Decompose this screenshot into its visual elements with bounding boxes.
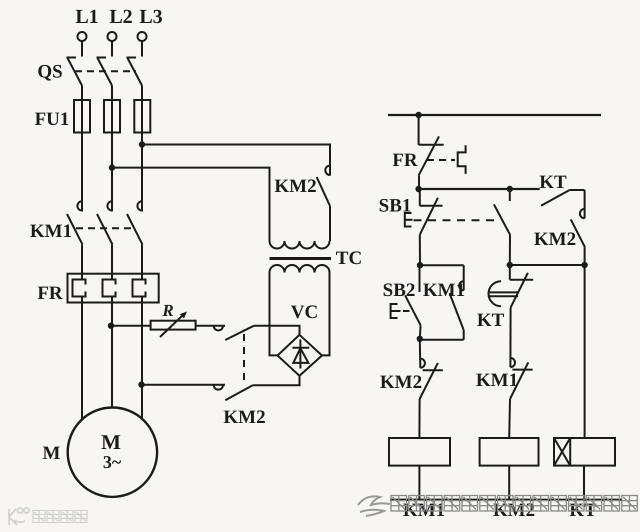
svg-text:L1: L1 (75, 6, 98, 28)
wire L1 drop to QS (81, 41, 83, 57)
svg-text:3~: 3~ (103, 452, 122, 472)
control top bus (388, 114, 601, 116)
resistor R (151, 301, 196, 337)
wire L2 drop to QS (111, 41, 113, 57)
junction dot L3 tap (139, 141, 145, 147)
pushbutton SB2 actuator (391, 304, 410, 318)
node L2 (109, 6, 132, 28)
pushbutton SB1 NC contact (379, 191, 443, 265)
junction dot lower tap (138, 381, 144, 387)
switch QS label (37, 62, 62, 83)
transformer TC secondary winding (270, 265, 330, 272)
svg-text:FR: FR (37, 283, 63, 304)
thermal relay FR label (37, 283, 63, 304)
junction dot B2 (507, 262, 513, 268)
wire L3 drop to QS (141, 41, 143, 57)
junction dot L2 tap (109, 164, 115, 170)
transformer TC label (336, 248, 362, 269)
pushbutton SB2 NO contact (383, 265, 421, 339)
wire right column to KT coil (584, 265, 586, 438)
wire to KM2 lower contact (142, 384, 226, 386)
thermal relay FR heater 2 (103, 274, 116, 303)
motor M circle (68, 408, 157, 497)
wire bus to FR contact (418, 115, 420, 145)
svg-text:KM2: KM2 (274, 176, 316, 197)
svg-text:SB2: SB2 (383, 280, 416, 301)
watermark logo right (358, 496, 390, 516)
control bottom bus (390, 499, 622, 501)
coil label KM2 (493, 500, 535, 521)
svg-text:KM1: KM1 (476, 370, 518, 391)
terminal L2 (108, 32, 117, 41)
svg-text:KT: KT (539, 172, 567, 193)
svg-text:M: M (101, 430, 121, 454)
switch QS pole 3 (127, 58, 143, 101)
wire tap L2 to TC primary (112, 168, 270, 241)
junction dot SB2 bottom (417, 336, 423, 342)
pushbutton SB1 actuator (405, 213, 413, 227)
wire resistor to KM2 upper contact (196, 325, 225, 327)
svg-text:M: M (43, 443, 61, 464)
wire TC secondary right to VC (322, 273, 330, 356)
svg-text:FR: FR (392, 150, 418, 171)
contactor KM1 main pole 1 (67, 133, 83, 274)
node L3 (139, 6, 162, 28)
fuse FU1 label (35, 109, 70, 130)
thermal relay FR heater 3 (133, 274, 146, 303)
junction dot A1 (415, 186, 421, 192)
transformer TC primary winding (270, 241, 330, 249)
wire parallel block top (420, 264, 464, 266)
svg-text:KM1: KM1 (30, 221, 72, 242)
wire parallel block bottom (420, 339, 464, 341)
contactor KM1 label (30, 221, 72, 242)
contactor KM2 lower braking contact (214, 385, 253, 400)
coil KT (554, 438, 615, 500)
switch QS linkage dashed (75, 70, 136, 72)
coil KM2 (480, 438, 539, 500)
svg-text:L3: L3 (139, 6, 162, 28)
svg-text:KM2: KM2 (223, 407, 265, 428)
coil KM1 (389, 438, 450, 500)
svg-text:KT: KT (477, 310, 505, 331)
coil label KM1 (403, 500, 445, 521)
terminal L1 (78, 32, 87, 41)
svg-text:L2: L2 (109, 6, 132, 28)
thermal relay FR NC contact (392, 136, 443, 189)
contactor KM1 aux NO contact (423, 265, 465, 340)
rectifier VC bridge (278, 335, 323, 376)
rectifier VC label (291, 302, 318, 323)
wire node row A (419, 188, 540, 190)
contactor KM2 braking label (223, 407, 265, 428)
svg-text:TC: TC (336, 248, 362, 269)
pushbutton SB1 linkage dashed (414, 219, 501, 221)
fuse FU1 pole 3 (134, 100, 150, 201)
node L1 (75, 6, 98, 28)
contactor KM2 contact at TC primary (274, 145, 330, 242)
contactor KM2 upper braking contact (214, 326, 254, 340)
svg-text:FU1: FU1 (35, 109, 70, 130)
coil label KT (569, 500, 597, 521)
wire to resistor R (111, 325, 151, 327)
wire KM2 upper contact to VC top (254, 326, 300, 335)
wire TC secondary left to VC (270, 273, 279, 356)
thermal relay FR trip actuator (427, 145, 466, 174)
contactor KM2 NO contact right column (534, 190, 585, 265)
svg-text:QS: QS (37, 62, 62, 83)
wire tap L3 to KM2-TC contact (142, 145, 330, 166)
fuse FU1 pole 1 (74, 100, 90, 201)
switch QS pole 1 (67, 58, 83, 101)
junction dot R tap (108, 323, 114, 329)
relay KT NO contact (539, 172, 584, 206)
motor M label outside (43, 443, 61, 464)
wire phase 1 FR to motor (81, 303, 83, 421)
relay KT delayed contact (477, 265, 533, 367)
junction dot B1 (417, 262, 423, 268)
transformer TC core (270, 257, 332, 260)
switch QS pole 2 (97, 58, 113, 101)
watermark text right (391, 496, 637, 512)
watermark logo left (9, 508, 29, 525)
wire phase 3 FR to motor (141, 303, 143, 420)
watermark text left (33, 511, 87, 523)
contactor KM1 main pole 2 (97, 133, 113, 274)
svg-text:KM2: KM2 (534, 229, 576, 250)
contactor KM1 NC interlock contact (476, 358, 533, 438)
contactor KM1 main pole 3 (127, 133, 143, 274)
contactor KM2 NC interlock contact (380, 340, 443, 438)
svg-text:VC: VC (291, 302, 318, 323)
wire KM2 lower contact to VC bottom (253, 376, 300, 385)
wire node row B right (510, 264, 585, 266)
junction dot B3 (581, 262, 587, 268)
svg-text:KM2: KM2 (380, 372, 422, 393)
terminal L3 (138, 32, 147, 41)
thermal relay FR heater 1 (73, 274, 86, 303)
wire phase 2 FR to motor (111, 303, 113, 409)
svg-text:R: R (161, 301, 173, 320)
contactor KM2 braking linkage dashed (243, 334, 245, 383)
junction dot A2 (507, 186, 513, 192)
pushbutton SB1 NO contact middle column (494, 189, 510, 265)
svg-text:KM1: KM1 (423, 280, 465, 301)
fuse FU1 pole 2 (104, 100, 120, 201)
contactor KM1 linkage dashed (76, 227, 136, 229)
junction dot bus-FR (415, 112, 421, 118)
thermal relay FR box (68, 274, 159, 303)
